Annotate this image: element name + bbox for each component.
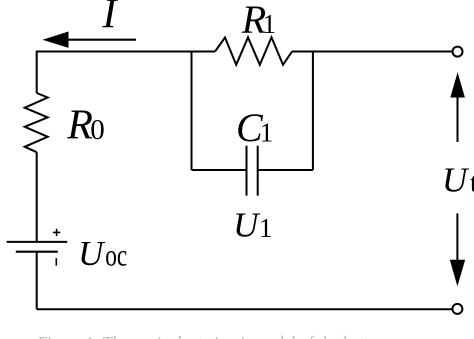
wire parallel-branch left vertical [191, 52, 193, 171]
svg-text:1: 1 [263, 9, 277, 39]
wire top-left horizontal segment [37, 51, 215, 53]
voltage arrow up [457, 95, 459, 142]
capacitor C1 [247, 146, 258, 196]
terminal top-right [453, 47, 463, 57]
voltage arrow down [456, 213, 458, 262]
svg-text:U: U [233, 206, 261, 245]
wire parallel-branch right vertical [312, 52, 314, 171]
battery plus sign [53, 229, 60, 236]
svg-text:1: 1 [259, 213, 273, 243]
wire capacitor left lead [192, 169, 246, 171]
svg-text:Figure 1. The equivalent ci: Figure 1. The equivalent circuit model o… [38, 333, 390, 339]
svg-text:U: U [442, 161, 470, 200]
svg-text:1: 1 [260, 118, 274, 148]
wire bottom horizontal [37, 308, 452, 310]
svg-text:oc: oc [105, 238, 127, 273]
svg-text:R: R [66, 103, 93, 149]
resistor R1 [215, 37, 292, 65]
wire left vertical upper [36, 51, 38, 94]
battery minus sign (rotated bar) [55, 258, 57, 265]
wire top-right horizontal segment [292, 51, 452, 53]
battery Uoc positive plate [7, 241, 67, 243]
battery Uoc negative plate [16, 251, 58, 253]
current arrow I [66, 39, 136, 41]
svg-text:0: 0 [90, 114, 105, 146]
resistor R0 [25, 93, 48, 152]
wire below battery [36, 252, 38, 310]
wire left vertical lower [36, 152, 38, 242]
terminal bottom-right [452, 304, 462, 314]
wire capacitor right lead [259, 169, 313, 171]
svg-text:t: t [470, 168, 474, 198]
svg-text:U: U [78, 234, 106, 273]
svg-text:I: I [101, 0, 118, 38]
